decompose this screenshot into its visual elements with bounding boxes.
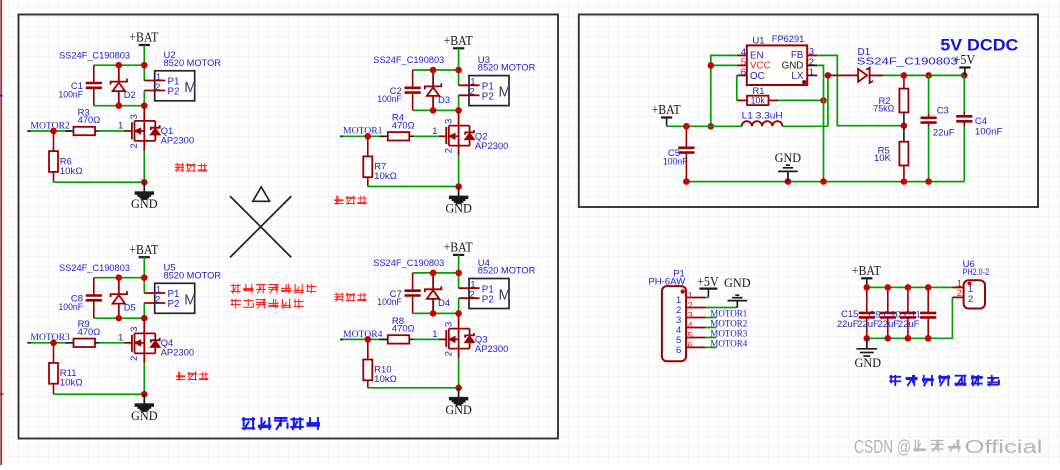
note counterclockwise (TR)	[334, 196, 366, 205]
wire bottom rail	[94, 105, 145, 107]
ground GND (P1)	[706, 276, 751, 308]
svg-text:75kΩ: 75kΩ	[873, 104, 894, 115]
svg-text:10k: 10k	[751, 95, 766, 105]
svg-text:100nF: 100nF	[975, 127, 1003, 138]
junction C5 top	[683, 123, 690, 130]
capacitor C1	[59, 65, 102, 106]
junction ground	[141, 179, 148, 186]
junction C10 top	[905, 284, 912, 291]
junction gnd symbol	[785, 178, 792, 185]
svg-text:100nF: 100nF	[59, 89, 84, 100]
junction C5 bottom	[683, 178, 690, 185]
motor part U5 8520	[144, 263, 221, 314]
wire input rail left	[667, 125, 742, 127]
junction bottom rail at +BAT	[141, 102, 148, 109]
svg-text:470Ω: 470Ω	[392, 323, 415, 334]
junction +5V	[961, 72, 968, 79]
inductor L1 3.3uH	[742, 111, 783, 127]
net label MOTOR1 (P1)	[706, 309, 748, 320]
svg-text:5: 5	[688, 331, 693, 341]
svg-text:SS24F_C190803: SS24F_C190803	[373, 55, 444, 66]
svg-text:P2: P2	[168, 299, 180, 310]
wire gate net	[27, 342, 53, 344]
resistor R9 470	[65, 319, 100, 347]
junction gate/pulldown	[50, 340, 57, 347]
capacitor C7	[377, 273, 420, 314]
pin 2 P1	[676, 301, 706, 316]
svg-text:470Ω: 470Ω	[78, 115, 101, 126]
junction C9 bottom	[885, 335, 892, 342]
junction bottom rail at diode	[430, 107, 437, 114]
resistor R10 10k pulldown	[363, 339, 397, 387]
transistor Q1 AP2300	[125, 106, 195, 183]
resistor R4 470	[380, 113, 415, 141]
junction bottom rail at +BAT	[455, 107, 462, 114]
svg-text:8520 MOTOR: 8520 MOTOR	[164, 270, 222, 281]
svg-text:2: 2	[129, 143, 140, 148]
svg-text:AP2300: AP2300	[475, 141, 509, 152]
wire top rail	[94, 277, 145, 279]
junction top rail at diode	[430, 270, 437, 277]
diode D3 SS24F	[425, 70, 450, 110]
svg-text:3: 3	[809, 47, 814, 58]
power +BAT (U3 cell)	[444, 33, 473, 48]
svg-text:MOTOR4: MOTOR4	[343, 329, 383, 340]
note drive polarity line1	[231, 284, 317, 294]
wire input rail right	[783, 125, 828, 127]
svg-text:100nF: 100nF	[59, 302, 84, 313]
wire top rail	[413, 69, 459, 71]
svg-text:100nF: 100nF	[663, 157, 688, 168]
pin 6 P1	[676, 341, 706, 356]
junction R1/GND	[820, 97, 827, 104]
wire bottom rail	[94, 317, 145, 319]
svg-text:2: 2	[469, 87, 474, 98]
svg-text:1: 1	[118, 121, 123, 132]
wire resistor to gate	[100, 342, 125, 344]
resistor R1 10k	[737, 86, 779, 105]
junction R5 bottom	[901, 178, 908, 185]
connector P1 PH-6AW	[648, 269, 686, 362]
svg-text:D4: D4	[438, 298, 450, 309]
junction ground	[455, 183, 462, 190]
junction C11 top	[925, 284, 932, 291]
svg-text:P2: P2	[482, 294, 494, 305]
svg-text:D5: D5	[124, 303, 136, 314]
wire bottom rail	[413, 109, 459, 111]
svg-text:3: 3	[443, 322, 454, 327]
wire R1 to GND net	[778, 99, 823, 101]
svg-text:2: 2	[968, 294, 973, 305]
junction EN/VCC at input rail	[708, 123, 715, 130]
wire +BAT stem	[143, 45, 145, 65]
wire LX down to inductor	[827, 75, 829, 126]
wire U pin1 drop	[143, 65, 145, 80]
capacitor C10 22uF	[900, 287, 916, 338]
capacitor C8	[59, 278, 102, 319]
svg-text:1: 1	[957, 278, 962, 288]
wire U pin2 to rail	[143, 91, 145, 106]
svg-text:+BAT: +BAT	[129, 242, 158, 257]
wire U pin1 drop	[143, 278, 145, 293]
svg-text:SS24F_C190803: SS24F_C190803	[59, 50, 130, 61]
wire chip GND down	[817, 65, 823, 181]
wire +BAT stem	[458, 255, 460, 273]
wire bottom rail	[413, 312, 459, 314]
svg-text:+BAT: +BAT	[852, 263, 881, 278]
resistor R5 10K	[874, 126, 908, 182]
connector U6 PH2.0-2	[952, 259, 989, 308]
svg-text:1: 1	[118, 332, 123, 343]
svg-text:M: M	[184, 292, 196, 308]
junction C15/GND bottom	[864, 335, 871, 342]
svg-text:2: 2	[957, 288, 962, 298]
svg-text:GND: GND	[855, 356, 882, 370]
svg-text:D2: D2	[124, 90, 136, 101]
svg-text:4: 4	[688, 321, 693, 331]
svg-text:GND: GND	[131, 197, 158, 211]
wire U pin1 drop	[458, 273, 460, 288]
net label MOTOR3 (P1)	[706, 329, 748, 340]
svg-text:100nF: 100nF	[377, 94, 402, 105]
junction top rail at diode	[430, 67, 437, 74]
edge artifact blue tick	[0, 95, 3, 97]
power +5V	[954, 52, 976, 75]
svg-text:CSDN @: CSDN @	[854, 436, 911, 457]
resistor R6 10k pulldown	[49, 131, 83, 182]
wire U pin2 to rail	[458, 95, 460, 110]
resistor R3 470	[65, 107, 100, 135]
junction C3 bottom	[925, 178, 932, 185]
svg-text:10kΩ: 10kΩ	[60, 378, 83, 389]
svg-text:M: M	[499, 288, 511, 304]
svg-text:GND: GND	[724, 276, 751, 290]
diode D5 SS24F	[111, 278, 136, 319]
pin 1 P1	[676, 291, 706, 306]
labels battery capacitors	[837, 309, 921, 330]
wire +BAT stem	[458, 48, 460, 70]
svg-text:1: 1	[809, 67, 814, 78]
wire U pin2 to rail	[458, 298, 460, 313]
svg-text:L1 3.3uH: L1 3.3uH	[742, 111, 783, 122]
ground GND	[445, 187, 472, 216]
svg-text:FP6291: FP6291	[772, 34, 805, 45]
junction VCC	[708, 62, 715, 69]
motor part U2 8520	[144, 50, 221, 101]
wire source to ground row	[54, 393, 145, 395]
junction gate/pulldown	[50, 128, 57, 135]
svg-text:M: M	[184, 80, 196, 96]
note clockwise (BR)	[334, 293, 366, 302]
svg-text:22uF: 22uF	[837, 319, 859, 330]
svg-text:LX: LX	[791, 71, 803, 82]
svg-text:MOTOR4: MOTOR4	[710, 339, 747, 350]
svg-text:+BAT: +BAT	[652, 102, 681, 117]
svg-text:OC: OC	[750, 71, 765, 82]
svg-text:10K: 10K	[874, 153, 892, 164]
svg-text:+BAT: +BAT	[129, 30, 158, 45]
wire resistor to gate	[414, 338, 439, 340]
svg-text:10kΩ: 10kΩ	[374, 171, 397, 182]
capacitor C11 22uF	[920, 287, 936, 338]
wire source to ground row	[368, 387, 459, 389]
svg-text:3: 3	[443, 119, 454, 124]
svg-text:+5V: +5V	[697, 274, 719, 289]
svg-text:C3: C3	[937, 106, 949, 117]
resistor R7 10k pulldown	[363, 136, 397, 186]
junction bottom rail at diode	[116, 102, 123, 109]
transistor Q4 AP2300	[125, 318, 195, 394]
svg-text:2: 2	[443, 148, 454, 153]
svg-text:GND: GND	[775, 151, 802, 165]
svg-text:+BAT: +BAT	[444, 240, 473, 255]
svg-text:6: 6	[688, 341, 693, 351]
svg-text:6: 6	[676, 345, 681, 356]
svg-text:10kΩ: 10kΩ	[60, 166, 83, 177]
svg-text:1: 1	[688, 291, 693, 301]
svg-text:3: 3	[129, 114, 140, 119]
power +5V (P1)	[697, 274, 719, 298]
wire resistor to gate	[414, 135, 439, 137]
svg-text:+5V: +5V	[954, 52, 976, 67]
border box motor drivers	[19, 15, 559, 439]
svg-text:2: 2	[469, 290, 474, 301]
junction ground	[141, 391, 148, 398]
note clockwise (TL)	[175, 163, 207, 172]
svg-text:3: 3	[129, 327, 140, 332]
wire +BAT stem	[143, 257, 145, 278]
svg-text:AP2300: AP2300	[475, 344, 509, 355]
svg-text:5V DCDC: 5V DCDC	[940, 35, 1018, 54]
title hollow-cup drive	[242, 417, 320, 430]
junction top rail at +BAT	[455, 270, 462, 277]
symbol triangle	[253, 187, 270, 202]
wire EN to VCC rail	[711, 55, 737, 126]
junction bottom rail at diode	[116, 315, 123, 322]
svg-text:MOTOR3: MOTOR3	[30, 332, 70, 343]
svg-text:AP2300: AP2300	[161, 347, 195, 358]
svg-text:1: 1	[432, 329, 437, 340]
junction C11 bottom	[925, 335, 932, 342]
wire DCDC ground rail	[686, 181, 964, 183]
svg-text:Official: Official	[965, 436, 1043, 457]
junction gate/pulldown	[365, 133, 372, 140]
junction ground	[455, 385, 462, 392]
svg-text:10kΩ: 10kΩ	[374, 374, 397, 385]
power +BAT (U5 cell)	[129, 242, 158, 257]
wire top rail	[413, 272, 459, 274]
power +BAT (DCDC)	[652, 102, 681, 126]
svg-text:2: 2	[155, 82, 160, 93]
wire resistor to gate	[100, 130, 125, 132]
wire FB sense	[817, 55, 904, 125]
junction LX	[825, 72, 832, 79]
svg-text:SS24F_C190803: SS24F_C190803	[857, 57, 958, 68]
wire U pin2 to rail	[143, 303, 145, 318]
svg-text:1: 1	[432, 126, 437, 137]
svg-text:GND: GND	[445, 202, 472, 216]
svg-text:EN: EN	[750, 50, 764, 61]
junction gate/pulldown	[365, 336, 372, 343]
svg-text:2: 2	[155, 294, 160, 305]
svg-text:22uF: 22uF	[857, 319, 879, 330]
junction chip gnd	[820, 178, 827, 185]
svg-text:PH2.0-2: PH2.0-2	[963, 267, 990, 278]
svg-text:8520 MOTOR: 8520 MOTOR	[478, 266, 536, 277]
diode D4 SS24F	[425, 273, 450, 314]
svg-text:+BAT: +BAT	[444, 33, 473, 48]
net label MOTOR4 (P1)	[706, 339, 748, 350]
symbol X mark	[230, 196, 291, 257]
svg-text:P2: P2	[168, 87, 180, 98]
wire gate net	[340, 135, 368, 137]
junction bottom rail at +BAT	[455, 310, 462, 317]
note motor polarity line2	[231, 299, 304, 309]
diode D2 SS24F	[111, 65, 136, 106]
wire top rail	[94, 64, 145, 66]
resistor R8 470	[380, 316, 415, 344]
junction top rail at diode	[116, 62, 123, 69]
pin 5 P1	[676, 331, 706, 346]
diode D1 SS24F	[828, 47, 958, 83]
wire battery top rail	[867, 286, 953, 288]
power +BAT (U4 cell)	[444, 240, 473, 255]
junction top rail at +BAT	[141, 62, 148, 69]
wire U pin1 drop	[458, 70, 460, 85]
pin 4 P1	[676, 321, 706, 336]
svg-text:MOTOR1: MOTOR1	[343, 126, 383, 137]
svg-text:2: 2	[688, 301, 693, 311]
ground GND	[131, 182, 158, 211]
power +BAT (U2 cell)	[129, 30, 158, 45]
wire source to ground row	[368, 186, 459, 188]
svg-text:22uF: 22uF	[933, 127, 955, 138]
sheet edge line	[0, 0, 2, 465]
junction C9 top	[885, 284, 892, 291]
power +BAT (battery)	[852, 263, 881, 288]
svg-text:22uF: 22uF	[898, 319, 920, 330]
junction C10 bottom	[905, 335, 912, 342]
capacitor C2	[377, 70, 420, 110]
wire battery bottom rail	[867, 297, 953, 338]
motor part U4 8520	[459, 258, 536, 309]
junction top rail at +BAT	[141, 274, 148, 281]
transistor Q3 AP2300	[439, 313, 509, 387]
junction top rail at diode	[116, 274, 123, 281]
svg-text:100nF: 100nF	[377, 297, 402, 308]
svg-text:470Ω: 470Ω	[78, 327, 101, 338]
transistor Q2 AP2300	[439, 110, 509, 186]
capacitor C15 22uF	[859, 287, 875, 338]
svg-text:P2: P2	[482, 91, 494, 102]
border box DCDC	[579, 15, 1038, 208]
svg-text:2: 2	[443, 351, 454, 356]
ic U1 FP6291	[737, 34, 817, 85]
svg-text:8520 MOTOR: 8520 MOTOR	[478, 63, 536, 74]
wire gate net	[340, 338, 368, 340]
wire VCC	[711, 64, 737, 66]
svg-text:GND: GND	[445, 403, 472, 417]
watermark CSDN	[854, 436, 1043, 457]
ground GND	[445, 388, 472, 417]
svg-text:470Ω: 470Ω	[392, 120, 415, 131]
svg-text:22uF: 22uF	[878, 319, 900, 330]
junction bottom rail at diode	[430, 310, 437, 317]
svg-text:8520 MOTOR: 8520 MOTOR	[164, 58, 222, 69]
wire gate net	[27, 130, 53, 132]
title battery interface and filtering	[889, 375, 999, 386]
junction FB divider	[901, 122, 908, 129]
net label MOTOR2 (P1)	[706, 319, 748, 330]
svg-text:3: 3	[688, 311, 693, 321]
resistor R11 10k pulldown	[49, 343, 83, 394]
wire OC down to R1	[736, 75, 738, 100]
svg-text:U1: U1	[752, 36, 764, 47]
ground GND (battery)	[855, 338, 882, 370]
svg-text:M: M	[499, 85, 511, 101]
junction bottom rail at +BAT	[141, 315, 148, 322]
svg-text:D3: D3	[438, 95, 450, 106]
svg-text:GND: GND	[131, 409, 158, 423]
wire 5V output row	[883, 74, 964, 76]
svg-text:AP2300: AP2300	[161, 136, 195, 147]
svg-text:SS24F_C190803: SS24F_C190803	[373, 258, 444, 269]
junction +BAT/C15 top	[864, 284, 871, 291]
junction top rail at +BAT	[455, 67, 462, 74]
svg-text:2: 2	[129, 356, 140, 361]
junction R2 top	[901, 72, 908, 79]
junction C3 top	[925, 72, 932, 79]
capacitor C3 22uF	[921, 75, 955, 181]
wire source to ground row	[54, 181, 145, 183]
pin 3 P1	[676, 311, 706, 326]
capacitor C5 100nF	[663, 126, 695, 181]
capacitor C4 100nF	[956, 75, 1002, 181]
svg-text:FB: FB	[791, 50, 804, 61]
svg-text:C4: C4	[975, 116, 987, 127]
note counterclockwise (BL)	[176, 372, 208, 381]
capacitor C9 22uF	[880, 287, 896, 338]
svg-text:6: 6	[741, 67, 746, 78]
resistor R2 75k	[873, 75, 908, 125]
ground GND (DCDC)	[775, 151, 802, 182]
motor part U3 8520	[459, 55, 536, 106]
ground GND	[131, 394, 158, 423]
svg-text:MOTOR2: MOTOR2	[30, 120, 70, 131]
svg-text:SS24F_C190803: SS24F_C190803	[59, 263, 130, 274]
